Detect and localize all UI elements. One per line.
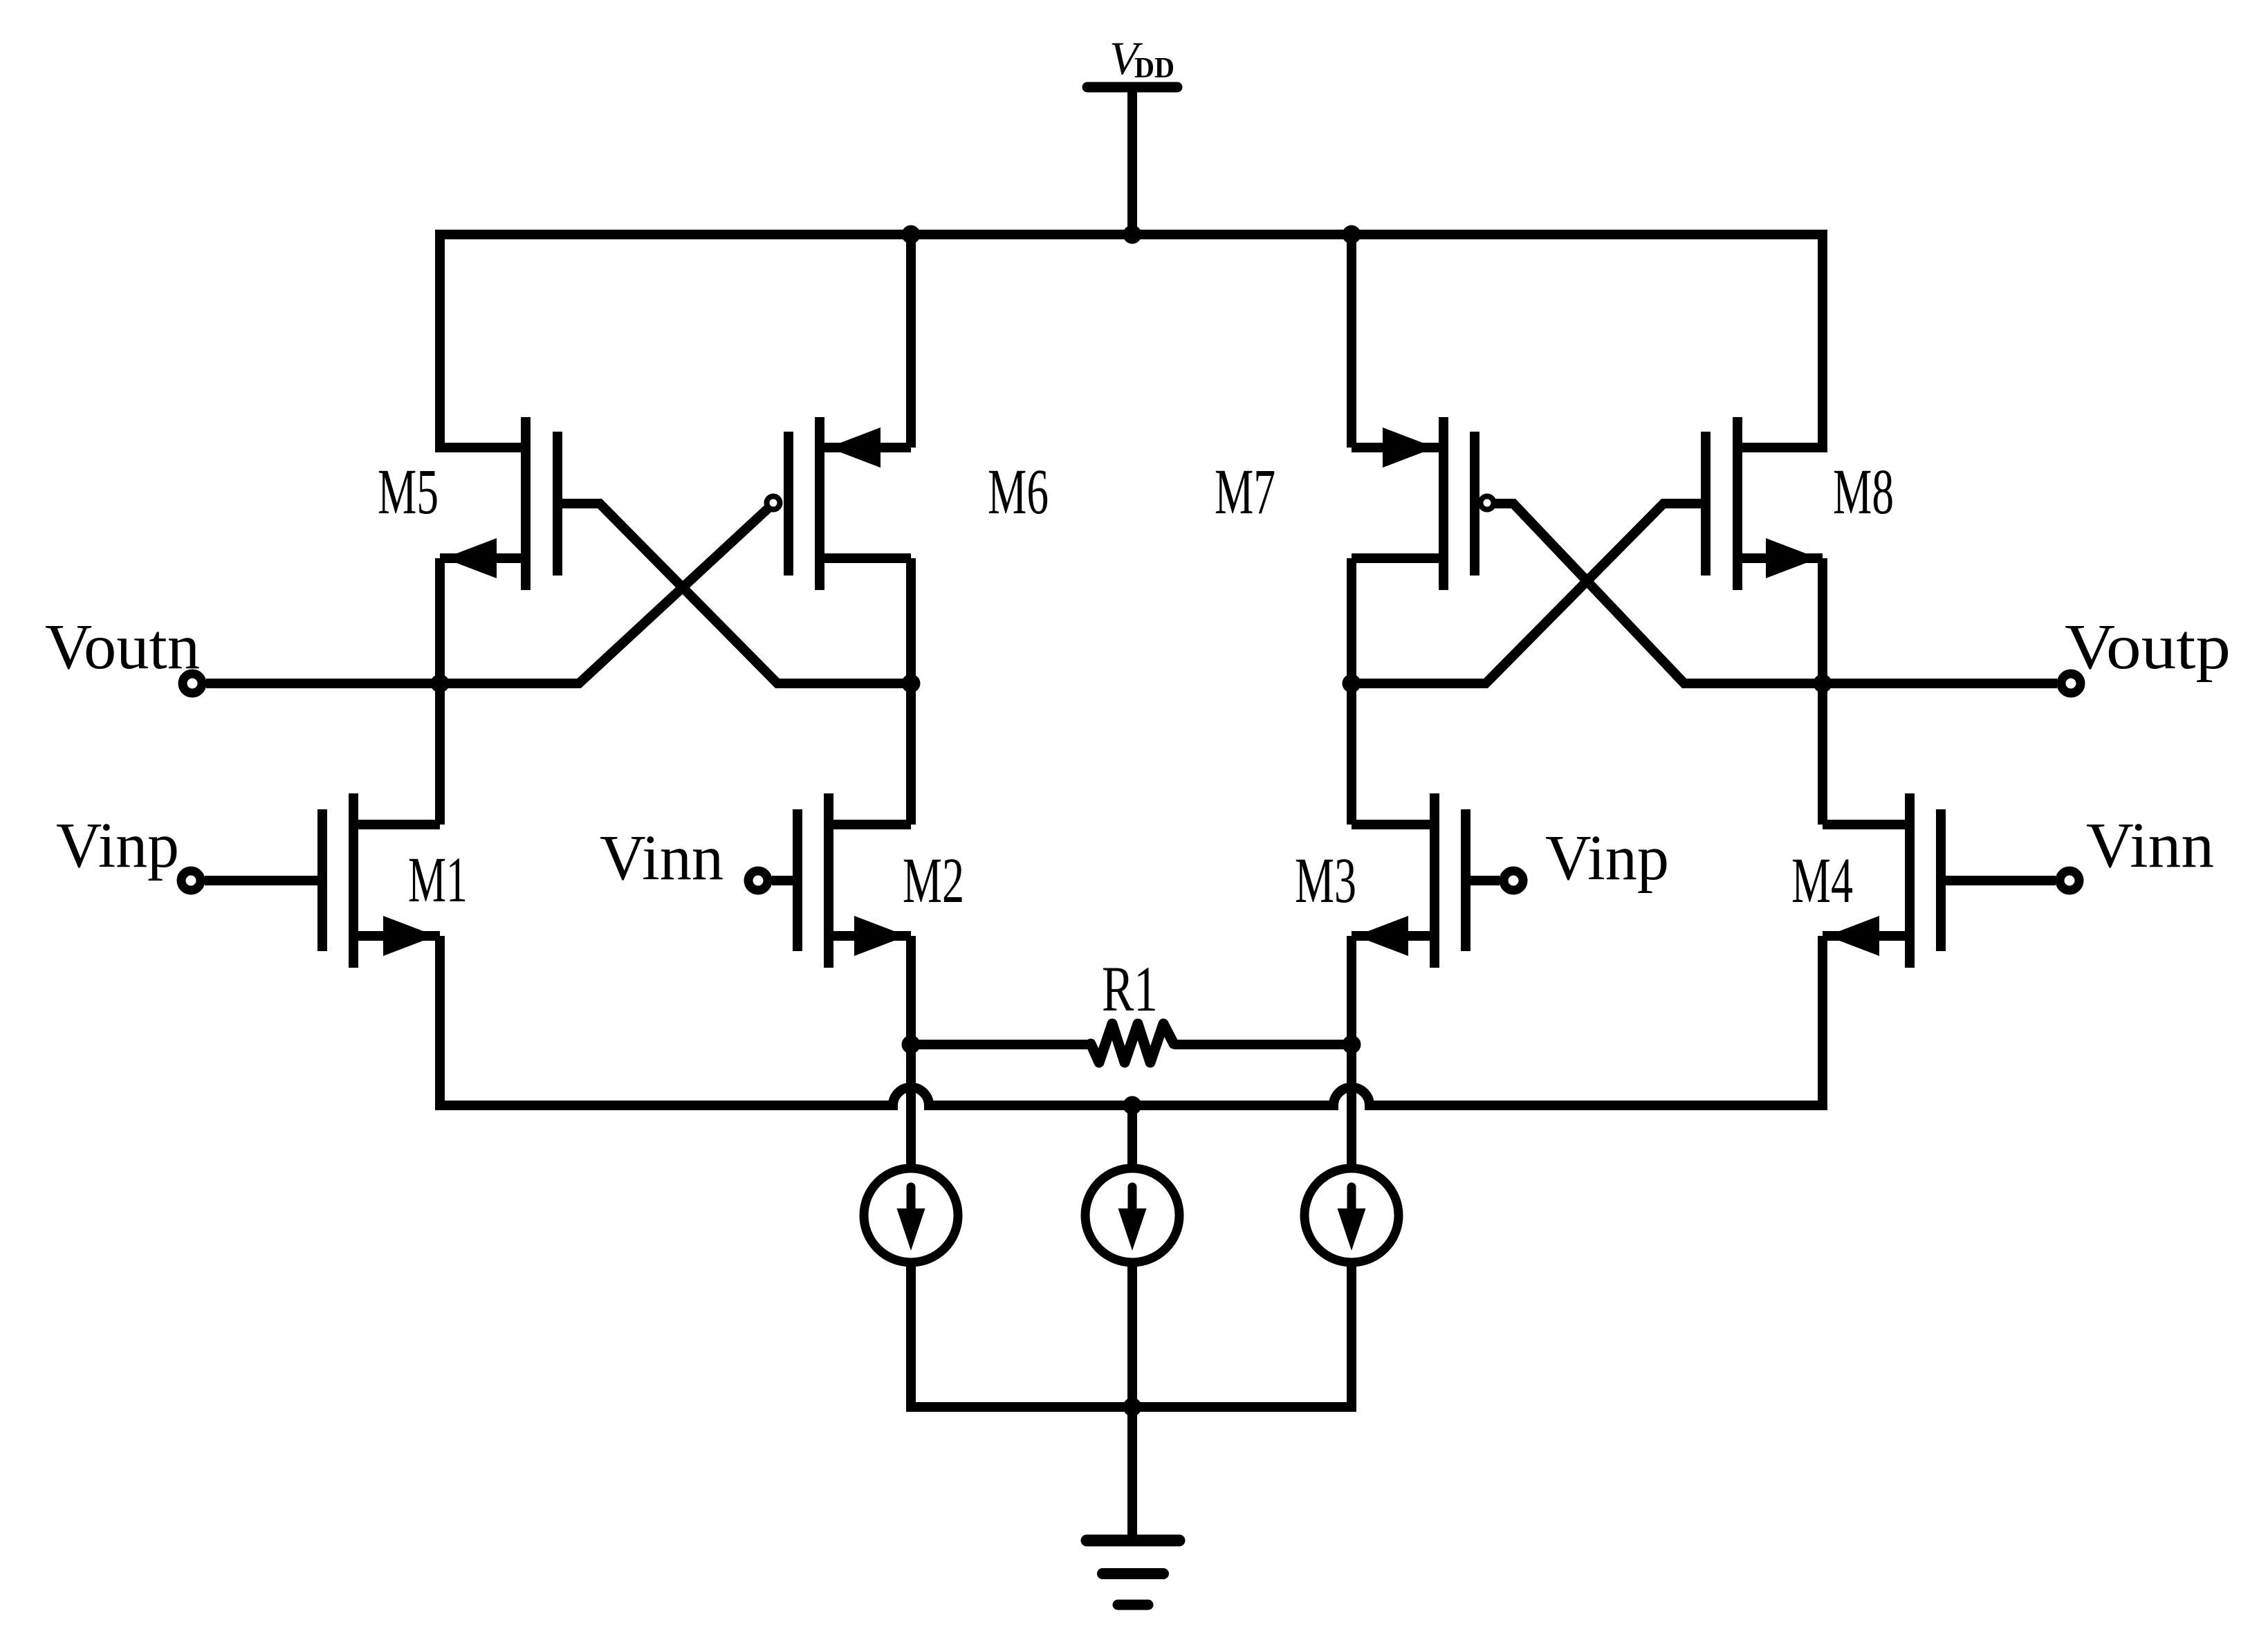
svg-text:M1: M1 (408, 845, 468, 916)
svg-text:Vinn: Vinn (2086, 810, 2214, 881)
svg-text:R1: R1 (1102, 954, 1158, 1025)
VDD power symbol (1087, 87, 1177, 234)
Vinp terminal (M3) (1504, 871, 1523, 890)
Voutn terminal (183, 674, 202, 693)
transistor M4 (1823, 793, 1941, 968)
wire: M5 drain down to Voutn node (435, 558, 445, 825)
wire: Voutn node to M6 gate bubble (cross couple) (206, 504, 773, 683)
junction on rail at VDD stem (1123, 226, 1142, 244)
current source I2 (1085, 1168, 1179, 1262)
M4 gate wire (1941, 876, 2056, 885)
current source I3 (1304, 1168, 1399, 1262)
wire: M5 source from rail (440, 230, 526, 448)
wire: M3 source down through R1 node and bus hop to current source (1347, 936, 1356, 1164)
transistor M2 (798, 793, 911, 968)
junction at Voutn / M5 drain / M1 drain (431, 674, 450, 693)
junction on rail at M7 column (1343, 226, 1361, 244)
wire: M7 source from rail (1347, 234, 1356, 448)
transistor M3 (1352, 793, 1466, 968)
svg-text:M6: M6 (988, 457, 1049, 528)
svg-text:M7: M7 (1215, 457, 1275, 528)
svg-text:M5: M5 (378, 457, 439, 528)
junction bus / middle current source (1123, 1096, 1142, 1115)
svg-text:M4: M4 (1791, 845, 1853, 917)
wire: M5 gate to M6 drain (cross couple) (557, 504, 911, 683)
resistor R1 (911, 1024, 1352, 1062)
VDD label (1109, 32, 1174, 84)
wire: M6 source to rail (906, 234, 916, 448)
svg-text:DD: DD (1134, 53, 1174, 84)
wire: M8 gate to M7 drain (cross couple) (1352, 504, 1706, 683)
junction at Voutp / M8 drain / M4 drain (1814, 674, 1832, 693)
ground (1087, 1540, 1179, 1605)
Vinn terminal (M4) (2060, 871, 2079, 890)
svg-text:M2: M2 (903, 845, 964, 917)
M6 gate bubble (767, 497, 780, 510)
transistor M6 (789, 417, 911, 590)
svg-text:M8: M8 (1833, 457, 1894, 528)
Voutp terminal (2061, 674, 2081, 693)
svg-text:Vinp: Vinp (1545, 822, 1669, 894)
svg-text:Voutp: Voutp (2065, 611, 2231, 683)
svg-text:Vinn: Vinn (600, 822, 723, 894)
junction R1 right / M3 source (1343, 1036, 1361, 1054)
wire: M8 drain down to Voutp node (1818, 558, 1827, 825)
Vinn terminal (M2) (748, 871, 768, 890)
junction at M7 drain / M3 drain (1343, 674, 1361, 693)
junction common node (1123, 1398, 1142, 1417)
M3 gate wire (1466, 876, 1500, 885)
Vinp terminal (M1) (181, 871, 201, 890)
transistor M1 (322, 793, 440, 968)
junction on rail at M6 column (902, 226, 921, 244)
svg-text:M3: M3 (1295, 845, 1356, 917)
junction at M6 drain / M2 drain (902, 674, 921, 693)
wire: bottom bus with hops over M2/M3 source wires (440, 1087, 1823, 1105)
svg-text:Vinp: Vinp (56, 810, 179, 881)
svg-text:Voutn: Voutn (45, 611, 200, 683)
wire: current source outputs to common node (911, 1266, 1352, 1407)
wire: M2 source down through R1 node and bus hop to current source (906, 936, 916, 1164)
current source I1 (864, 1168, 958, 1262)
wire: M6 drain column down to M2 drain (906, 558, 916, 825)
wire: middle current source to ground (1127, 1266, 1137, 1540)
wire: M4 source to bottom bus (1818, 936, 1827, 1110)
junction R1 left / M2 source (902, 1036, 921, 1054)
transistor M5 (440, 417, 557, 590)
wire: middle current source feed (1127, 1105, 1137, 1164)
wire: M1 source to bottom bus (435, 936, 445, 1110)
wire: M7 gate bubble to Voutp node (cross couple) (1494, 504, 2057, 683)
M2 gate wire (772, 876, 798, 885)
M1 gate wire (205, 876, 322, 885)
wire: VDD top rail (435, 230, 1827, 239)
M7 gate bubble (1481, 497, 1494, 510)
transistor M8 (1706, 417, 1823, 590)
transistor M7 (1352, 417, 1475, 590)
wire: M7 drain column down to M3 drain (1347, 558, 1356, 825)
wire: M8 source to rail (1737, 230, 1823, 448)
